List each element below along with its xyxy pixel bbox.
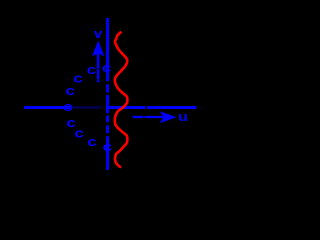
v-axis dash 5	[106, 125, 109, 133]
svg-text:c: c	[65, 84, 75, 98]
svg-text:c: c	[102, 61, 112, 75]
arrow u head (barbed)	[160, 111, 177, 123]
arrow u shaft dash notch	[143, 116, 145, 119]
arrow v shaft dash notch 2	[97, 79, 100, 81]
arrow v shaft	[97, 52, 100, 82]
u-axis right segment (after gap)	[147, 106, 197, 109]
v-axis dash 4	[106, 116, 109, 123]
svg-text:c: c	[87, 135, 97, 149]
u-axis very faint segment at origin	[101, 106, 107, 108]
svg-text:v: v	[94, 26, 103, 41]
svg-text:c: c	[63, 100, 73, 114]
wave (red sinusoid along v-axis)	[115, 32, 128, 167]
v-axis dash 2	[106, 84, 109, 92]
svg-text:c: c	[103, 140, 113, 154]
u-axis far-left bright segment	[24, 106, 72, 109]
arrow v head (barbed)	[92, 41, 105, 57]
v-axis dash 6	[106, 136, 109, 170]
svg-text:c: c	[87, 63, 97, 77]
v-axis dash 1	[106, 18, 109, 81]
arrow u shaft	[132, 116, 167, 118]
svg-text:c: c	[74, 127, 84, 141]
u-axis faint segment left of origin	[72, 106, 101, 109]
svg-text:u: u	[178, 110, 188, 124]
v-axis dash 3	[106, 95, 109, 113]
arrow v shaft dash notch 1	[97, 68, 100, 70]
u-axis right segment (origin to gap)	[106, 106, 145, 109]
